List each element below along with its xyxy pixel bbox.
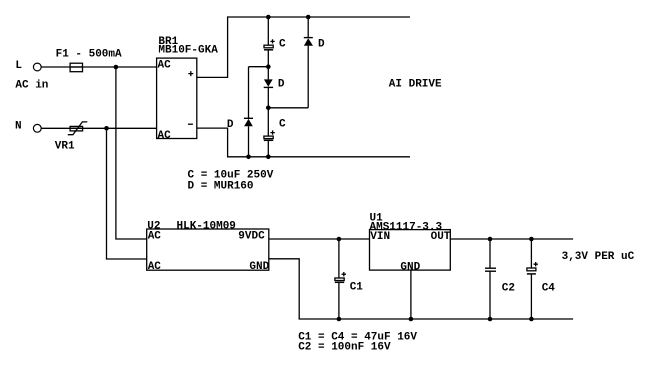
svg-text:VIN: VIN <box>370 231 390 243</box>
svg-text:GND: GND <box>400 262 420 274</box>
svg-text:C: C <box>279 119 286 131</box>
svg-text:AI DRIVE: AI DRIVE <box>389 79 442 91</box>
svg-text:AC: AC <box>158 59 172 71</box>
svg-text:9VDC: 9VDC <box>238 230 265 242</box>
svg-text:C: C <box>279 39 286 51</box>
svg-text:3,3V PER uC: 3,3V PER uC <box>562 251 635 263</box>
svg-text:L: L <box>15 60 22 72</box>
svg-text:D: D <box>227 119 234 131</box>
svg-text:HLK-10M09: HLK-10M09 <box>177 221 236 233</box>
svg-text:AC in: AC in <box>15 79 48 91</box>
svg-text:C1: C1 <box>350 281 364 293</box>
svg-text:VR1: VR1 <box>55 141 75 153</box>
svg-text:C4: C4 <box>542 283 556 295</box>
svg-text:OUT: OUT <box>431 231 451 243</box>
svg-text:MB10F-GKA: MB10F-GKA <box>158 45 218 57</box>
svg-text:N: N <box>15 120 22 132</box>
svg-text:AC: AC <box>148 261 162 273</box>
svg-text:GND: GND <box>249 261 269 273</box>
svg-text:AC: AC <box>158 130 172 142</box>
svg-text:D = MUR160: D = MUR160 <box>188 181 254 193</box>
svg-text:AC: AC <box>148 230 162 242</box>
svg-text:C2: C2 <box>502 283 515 295</box>
svg-text:C2 = 100nF 16V: C2 = 100nF 16V <box>298 341 391 353</box>
svg-text:F1 - 500mA: F1 - 500mA <box>56 49 122 61</box>
svg-text:D: D <box>318 38 325 50</box>
svg-text:D: D <box>278 79 285 91</box>
